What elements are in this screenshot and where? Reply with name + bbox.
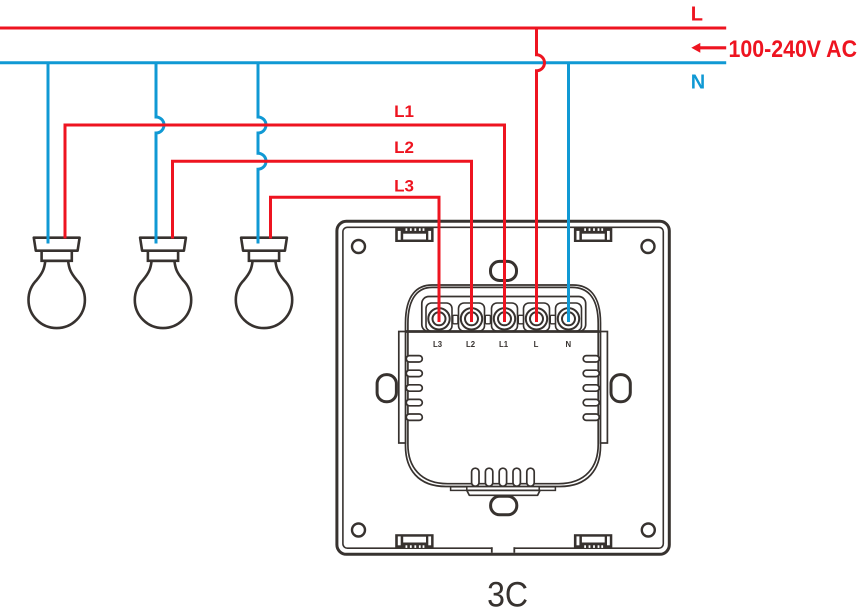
svg-text:L1: L1 <box>499 340 509 349</box>
terminal labels <box>433 340 572 349</box>
wire L bus <box>0 27 726 30</box>
wire N to terminal N <box>567 63 570 322</box>
svg-text:L: L <box>691 4 703 26</box>
wire N drop to lamp B3 with hops <box>258 63 266 244</box>
svg-text:L1: L1 <box>394 102 414 121</box>
screw hole top-left <box>352 240 365 253</box>
terminal strip housing <box>422 297 586 332</box>
plate bottom notch <box>492 547 515 553</box>
wire N drop to lamp B2 with hop <box>156 63 164 244</box>
lamp B3 <box>236 238 292 328</box>
oval hole bottom center <box>491 496 517 515</box>
wire L to terminal L with hop <box>537 28 545 322</box>
svg-text:N: N <box>691 72 705 94</box>
screw hole top-right <box>642 240 655 253</box>
wire L3 lamp B3 to terminal L3 <box>271 197 440 322</box>
connector block top-left <box>395 228 433 242</box>
svg-text:N: N <box>565 340 571 349</box>
left heat fins <box>406 356 422 421</box>
terminal L <box>526 308 547 329</box>
svg-text:L2: L2 <box>466 340 476 349</box>
lamp B1 <box>29 238 85 328</box>
relay module body inner edge <box>408 287 598 483</box>
svg-text:L: L <box>534 340 539 349</box>
terminal N <box>558 308 579 329</box>
svg-text:L3: L3 <box>394 176 414 195</box>
wire N bus <box>0 61 726 64</box>
svg-text:3C: 3C <box>487 575 528 610</box>
bottom vent comb <box>472 468 535 486</box>
oval hole left <box>377 375 396 402</box>
terminal L1 <box>494 308 515 329</box>
svg-text:L3: L3 <box>433 340 443 349</box>
arrow to supply <box>691 43 726 53</box>
connector block top-right <box>574 228 612 242</box>
switch U1 mounting plate outer frame <box>337 221 669 554</box>
screw hole bottom-right <box>642 524 655 537</box>
svg-text:L2: L2 <box>394 138 414 157</box>
relay module body outer <box>406 285 601 487</box>
wire L2 lamp B2 to terminal L2 <box>173 161 472 322</box>
bottom tab trapezoid <box>467 490 540 495</box>
terminal cells <box>426 303 582 331</box>
right heat fins <box>583 356 599 421</box>
bottom tab feet <box>451 487 467 491</box>
oval hole top center <box>491 261 517 280</box>
connector block bottom-right <box>574 534 612 548</box>
oval hole right <box>611 375 630 402</box>
terminal L2 <box>461 308 482 329</box>
connector block bottom-left <box>395 534 433 548</box>
svg-text:100-240V AC: 100-240V AC <box>729 36 858 63</box>
switch U1 mounting plate inner edge <box>343 227 663 548</box>
screw hole bottom-left <box>352 524 365 537</box>
wire L1 lamp B1 to terminal L1 <box>65 125 505 322</box>
lamp B2 <box>135 238 191 328</box>
wire N drop to lamp B1 <box>47 63 50 244</box>
module right flange <box>601 332 608 444</box>
terminal L3 <box>428 308 449 329</box>
module left flange <box>399 332 406 444</box>
module shelf line <box>406 330 600 333</box>
